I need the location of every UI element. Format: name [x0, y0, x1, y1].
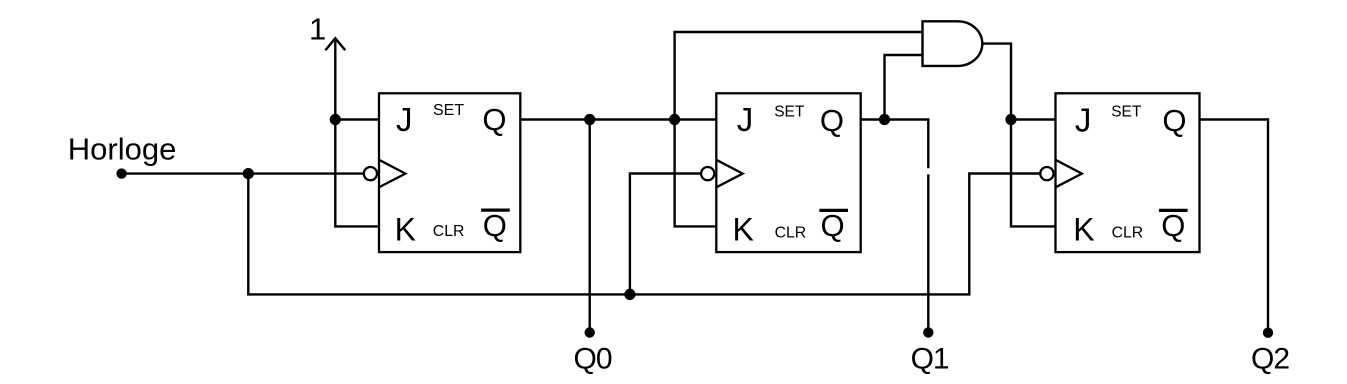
svg-text:Q: Q: [820, 103, 844, 138]
svg-text:Q: Q: [482, 102, 506, 137]
svg-text:1: 1: [309, 12, 326, 47]
svg-text:K: K: [395, 212, 416, 248]
svg-text:Q: Q: [1162, 103, 1186, 138]
svg-text:Q: Q: [821, 208, 845, 243]
svg-text:J: J: [1075, 102, 1092, 139]
svg-text:J: J: [396, 101, 413, 138]
svg-text:Q0: Q0: [573, 343, 611, 376]
svg-text:Horloge: Horloge: [68, 132, 177, 167]
svg-text:Q1: Q1: [911, 343, 949, 376]
svg-text:Q: Q: [483, 208, 507, 243]
svg-text:CLR: CLR: [775, 225, 807, 242]
svg-text:CLR: CLR: [433, 223, 465, 240]
svg-text:Q: Q: [1161, 208, 1185, 243]
svg-text:Q2: Q2: [1251, 343, 1289, 376]
svg-text:J: J: [737, 101, 754, 138]
svg-text:SET: SET: [774, 103, 805, 120]
svg-text:CLR: CLR: [1112, 224, 1144, 241]
svg-text:K: K: [1073, 211, 1094, 247]
svg-text:SET: SET: [1111, 103, 1142, 120]
svg-text:K: K: [733, 211, 754, 247]
svg-text:SET: SET: [433, 102, 464, 119]
